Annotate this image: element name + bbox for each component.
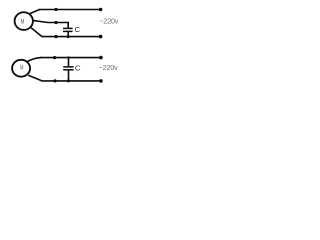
svg-text:~220v: ~220v (99, 63, 118, 72)
wire: top rail of top circuit (39, 9, 101, 11)
wire: bottom rail of bottom circuit (42, 80, 101, 82)
wire: bottom lead diagonal of M1 (31, 28, 42, 37)
node: junction dot bottom rail (54, 35, 57, 38)
node: capacitor C2 bottom junction (67, 79, 70, 82)
node: capacitor C1 bottom junction (67, 35, 70, 38)
node: junction dot top rail (54, 8, 57, 11)
wire: capacitor C2 bottom lead (68, 70, 70, 81)
terminal: bottom supply terminal (99, 35, 103, 39)
wire: bottom rail of top circuit (42, 36, 101, 38)
wire: capacitor C2 top lead (68, 58, 70, 67)
wire: top lead diagonal of M1 (30, 10, 40, 14)
svg-text:C: C (75, 64, 81, 73)
capacitor C2 plates (63, 67, 73, 70)
svg-text:M: M (20, 64, 24, 71)
node: junction dot middle wire (54, 21, 57, 24)
wire: top lead diagonal of M2 (27, 58, 41, 62)
capacitor C1 plates (63, 28, 73, 31)
wire: bottom lead diagonal of M2 (28, 75, 42, 81)
svg-text:M: M (21, 18, 25, 25)
node: junction dot bottom rail (bottom circuit) (53, 79, 56, 82)
node: capacitor C2 top junction (67, 56, 70, 59)
terminal: top supply terminal (99, 8, 103, 12)
node: junction dot top rail (bottom circuit) (53, 56, 56, 59)
wire: capacitor C1 bottom lead (67, 32, 69, 37)
wire: top rail of bottom circuit (40, 57, 101, 59)
motor M2 (bottom circuit) (12, 60, 30, 77)
terminal: top supply terminal (bottom circuit) (99, 56, 103, 60)
svg-text:C: C (75, 25, 81, 34)
wire: middle lead of M1 to capacitor (33, 21, 68, 23)
terminal: bottom supply terminal (bottom circuit) (99, 79, 103, 83)
wire: capacitor C1 top lead (67, 22, 69, 29)
motor M1 (top circuit) (15, 12, 33, 30)
svg-text:~220v: ~220v (99, 17, 118, 26)
